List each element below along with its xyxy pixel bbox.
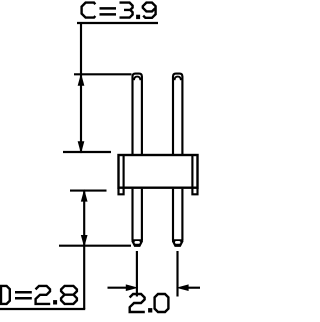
pin 2 centerline extension xyxy=(176,251,178,297)
pin 1 solder tip xyxy=(132,239,143,247)
label C underline xyxy=(77,22,158,24)
extension line at body top xyxy=(63,151,111,153)
extension line at body bottom xyxy=(70,190,107,192)
arrowhead down (body top level) xyxy=(78,142,83,152)
leader / dimension line for C xyxy=(80,23,82,152)
arrowhead up (body bottom level) xyxy=(82,191,87,201)
dimension label 2.0 xyxy=(130,294,169,312)
dimension line 2.0 right segment xyxy=(187,287,200,289)
insulator body outline xyxy=(119,155,198,188)
pin 1 tip chamfer dome xyxy=(134,77,140,81)
arrowhead up (pin top level) xyxy=(78,75,83,85)
dimension line 2.0 left segment xyxy=(108,287,128,289)
dimension label C=3.9 xyxy=(82,3,156,19)
dimension/leader line for D xyxy=(83,191,85,309)
body left wall inner line xyxy=(123,155,125,188)
label D underline xyxy=(0,308,85,310)
right standoff foot xyxy=(192,188,197,195)
extension line at pin top xyxy=(74,73,132,75)
pin 2 lower post xyxy=(173,189,182,240)
pin 2 tip chamfer dome xyxy=(175,77,181,81)
pin 1 upper post xyxy=(133,74,142,155)
pin 2 upper post xyxy=(173,74,182,155)
pin 1 centerline extension xyxy=(136,251,138,297)
left standoff foot xyxy=(119,188,124,195)
arrowhead right (pin 1 centerline) xyxy=(126,285,136,290)
pin 2 solder tip xyxy=(172,239,183,247)
body right wall inner line xyxy=(191,155,193,188)
arrowhead left (pin 2 centerline) xyxy=(178,285,188,290)
extension line at pin tip xyxy=(59,245,131,247)
pin 1 lower post xyxy=(133,189,142,240)
dimension label D=2.8 xyxy=(1,286,77,304)
arrowhead down (pin tip level) xyxy=(82,236,87,246)
